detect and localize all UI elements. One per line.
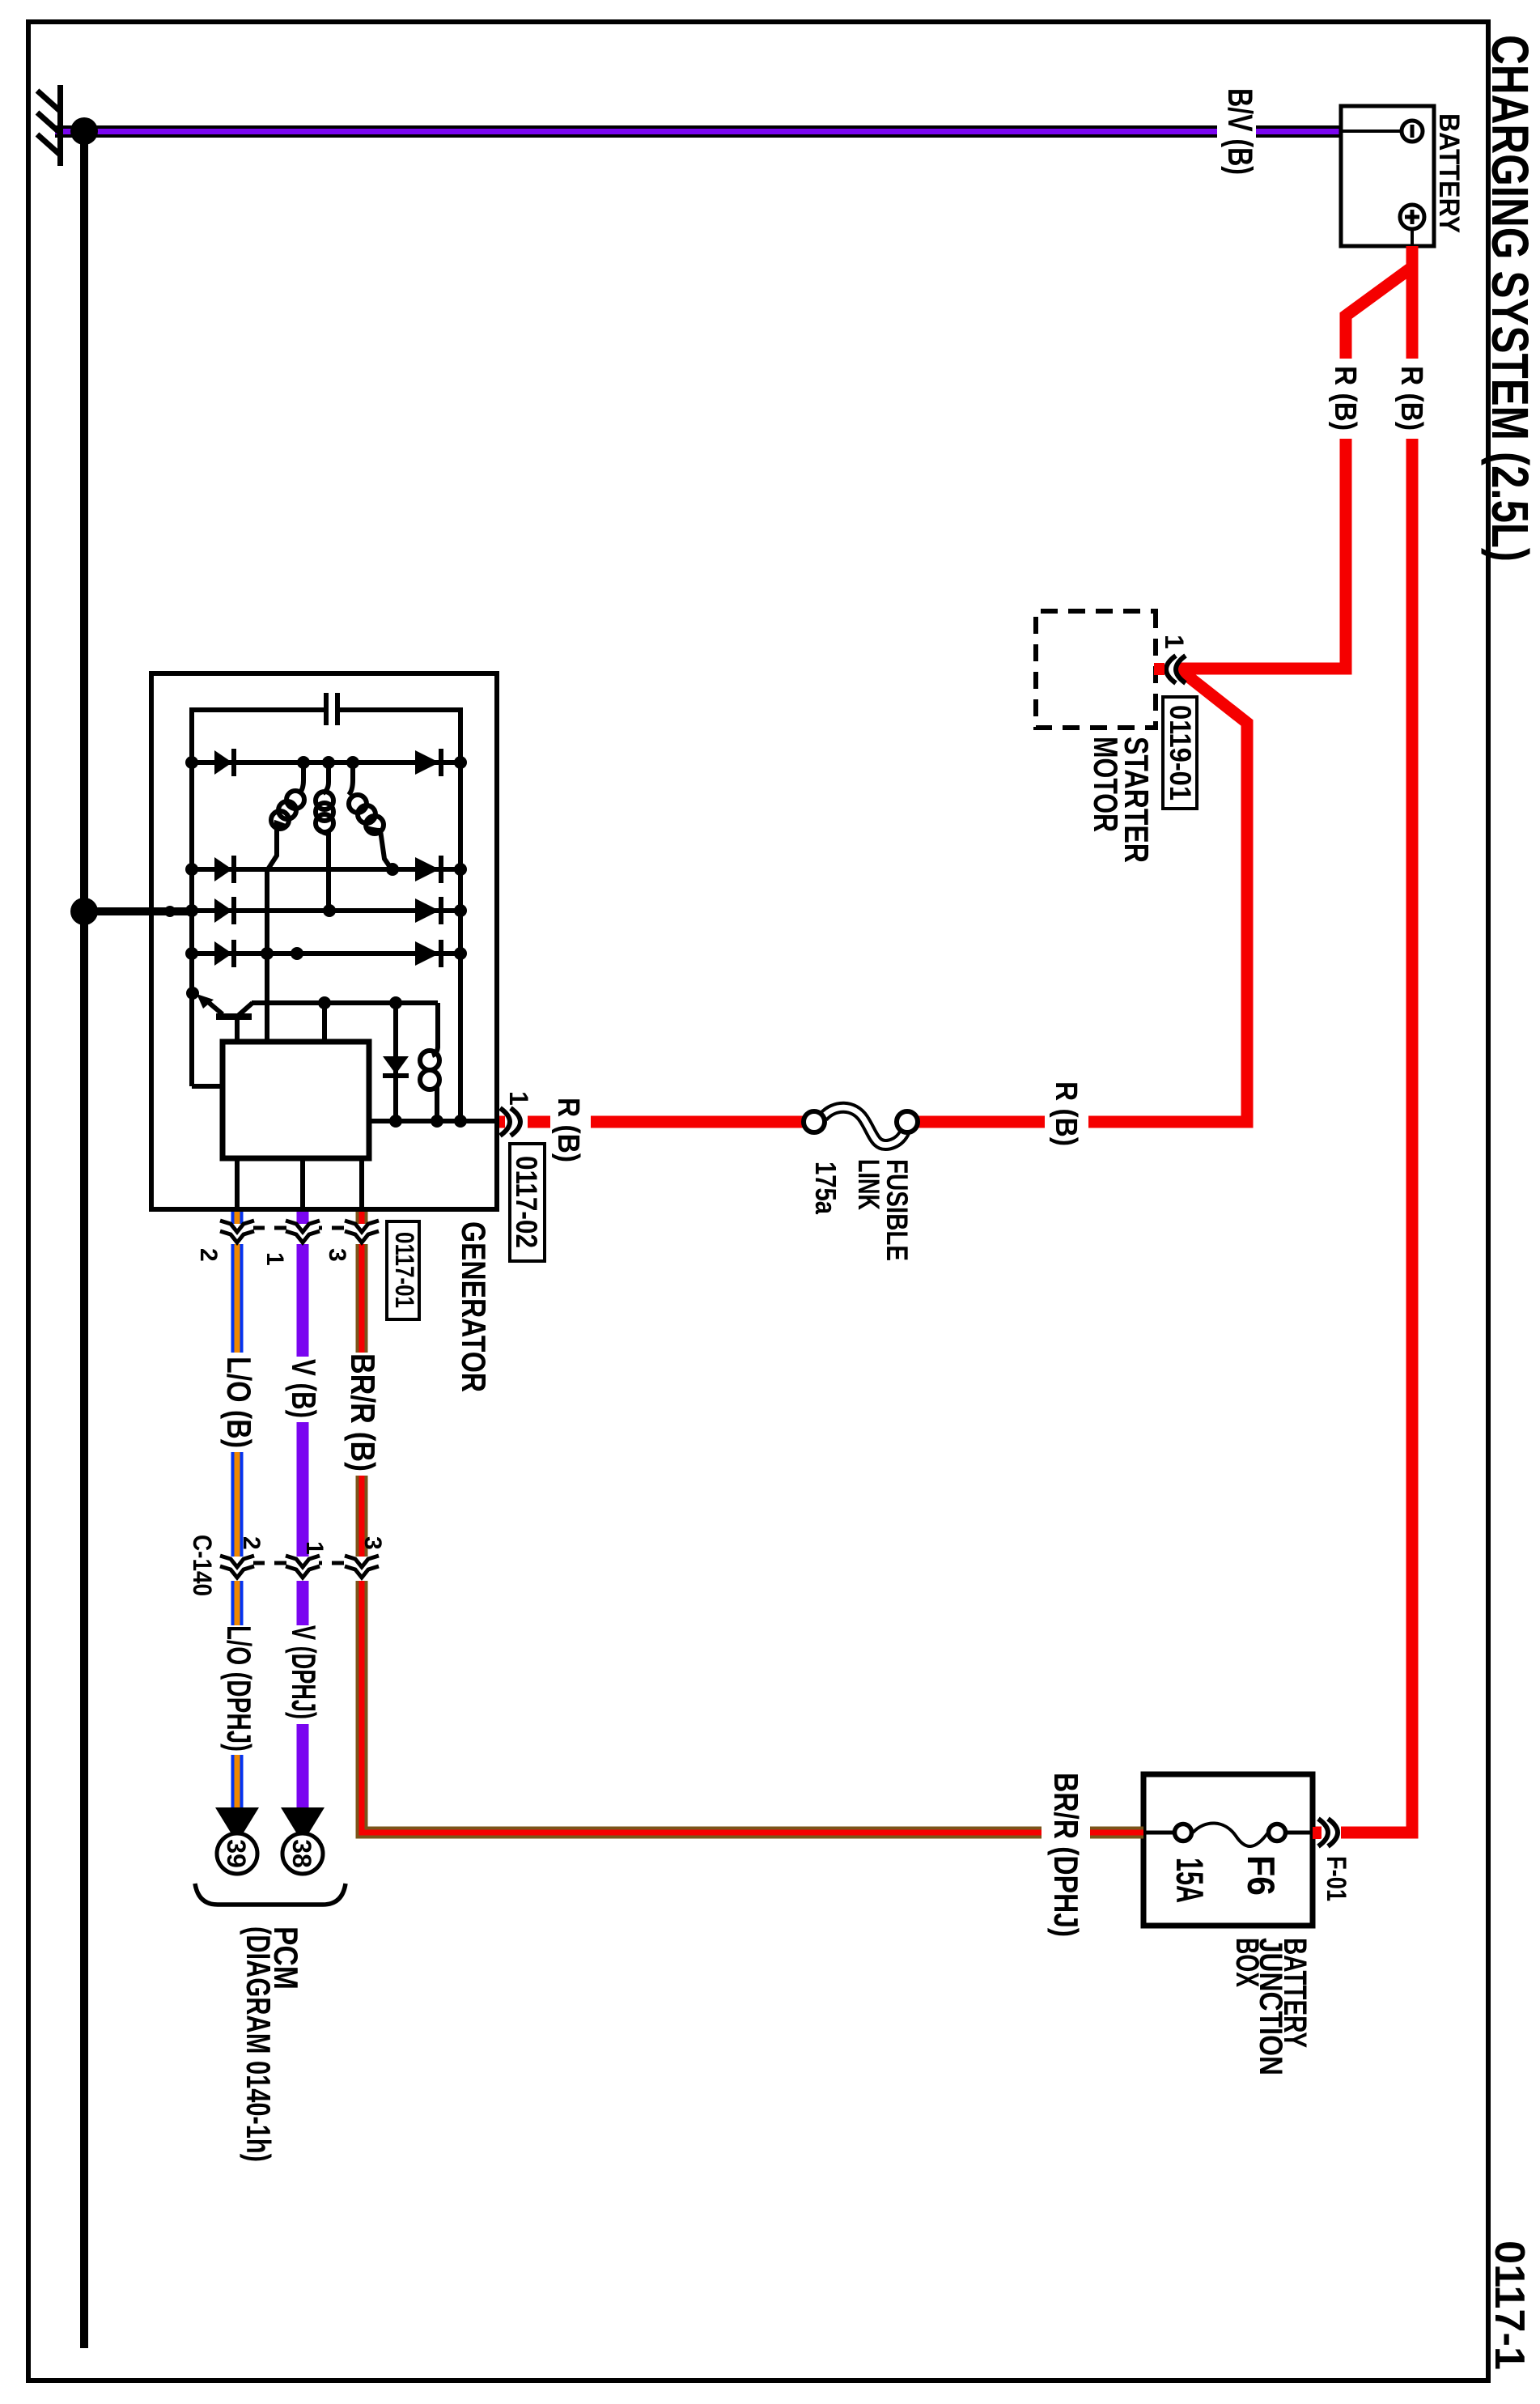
ground symbol xyxy=(37,85,63,166)
regulator box xyxy=(223,1042,369,1158)
diode phase column 2 xyxy=(192,856,460,883)
label box 0117-01 xyxy=(387,1221,419,1319)
svg-text:L/O (DPHJ): L/O (DPHJ) xyxy=(220,1625,258,1752)
svg-text:CHARGING SYSTEM (2.5L): CHARGING SYSTEM (2.5L) xyxy=(1481,35,1539,562)
wire regulator sense tap xyxy=(322,1003,327,1042)
diode phase column 1 xyxy=(192,749,460,776)
svg-text:MOTOR: MOTOR xyxy=(1087,737,1125,832)
fuse F6 15A xyxy=(1146,1823,1310,1846)
svg-text:38: 38 xyxy=(287,1839,316,1868)
transistor Q regulator output xyxy=(197,994,252,1042)
node dots phase taps xyxy=(346,756,359,769)
svg-text:175a: 175a xyxy=(809,1162,842,1215)
stator coil 2 xyxy=(316,762,333,911)
svg-text:R (B): R (B) xyxy=(1394,366,1428,431)
wire BR/R generator terminal 3 (brown w/ red core) to junction box xyxy=(362,1212,1143,1841)
svg-text:1: 1 xyxy=(504,1091,533,1106)
svg-text:3: 3 xyxy=(359,1536,386,1550)
diode phase column 4 xyxy=(192,940,460,967)
PCM pin arrow 38 xyxy=(281,1807,325,1843)
svg-text:2: 2 xyxy=(238,1536,265,1550)
svg-text:BR/R (DPHJ): BR/R (DPHJ) xyxy=(1047,1773,1085,1937)
svg-text:C-140: C-140 xyxy=(188,1535,217,1596)
PCM pin arrow 39 xyxy=(215,1807,259,1843)
generator inner rectifier frame xyxy=(192,710,495,1121)
svg-text:R (B): R (B) xyxy=(1049,1081,1083,1146)
svg-text:0117-1: 0117-1 xyxy=(1486,2240,1533,2370)
svg-text:1: 1 xyxy=(261,1252,288,1266)
svg-text:0117-02: 0117-02 xyxy=(510,1156,543,1248)
node dots bottom bus xyxy=(185,756,198,769)
svg-text:L/O (B): L/O (B) xyxy=(220,1357,258,1448)
connector 0117-02 chevron at generator output xyxy=(500,1108,528,1136)
node dots B+ line xyxy=(431,1115,443,1128)
gap for R (B) label on battery feed xyxy=(1404,359,1420,439)
node dots collector line xyxy=(389,996,402,1009)
svg-text:F-01: F-01 xyxy=(1321,1856,1351,1901)
wire B/V battery negative (black w/ violet core), vertical xyxy=(55,125,1341,138)
node small dot on ground branch xyxy=(164,906,176,917)
svg-text:15A: 15A xyxy=(1169,1858,1211,1903)
node ground junction dot xyxy=(70,117,98,145)
wire generator ground branch xyxy=(84,907,192,915)
gap for R (B) label lower xyxy=(550,1115,591,1129)
label box 0119-01 xyxy=(1163,697,1197,809)
fusible link 175a xyxy=(804,1107,918,1145)
zener diode in regulator xyxy=(383,1003,409,1121)
node generator ground junction dot xyxy=(70,898,98,925)
svg-text:2: 2 xyxy=(195,1248,222,1262)
PCM brace xyxy=(195,1884,346,1905)
svg-text:B/V (B): B/V (B) xyxy=(1220,88,1259,175)
svg-text:F6: F6 xyxy=(1240,1855,1283,1896)
wire collector line xyxy=(252,1000,438,1005)
PCM pin circle 39 xyxy=(217,1833,257,1874)
wire R starter to generator (red) xyxy=(497,669,1247,1122)
wire phase sense line to regulator xyxy=(265,869,269,1042)
wire ground bus (black) xyxy=(80,127,88,2348)
svg-text:1: 1 xyxy=(301,1541,328,1555)
starter motor dashed box xyxy=(1036,611,1156,728)
stator coil 3 xyxy=(268,762,304,869)
svg-text:BR/R (B): BR/R (B) xyxy=(344,1353,382,1472)
battery negative terminal xyxy=(1341,121,1423,142)
generator box xyxy=(151,673,497,1209)
svg-text:(DIAGRAM 0140-1h): (DIAGRAM 0140-1h) xyxy=(240,1926,278,2162)
svg-text:FUSIBLE: FUSIBLE xyxy=(880,1159,914,1261)
node dots top bus xyxy=(454,756,467,769)
svg-text:V (DPHJ): V (DPHJ) xyxy=(285,1625,323,1719)
diode phase column 3 xyxy=(192,897,460,924)
svg-text:BATTERY: BATTERY xyxy=(1433,113,1465,233)
svg-text:R (B): R (B) xyxy=(1328,366,1362,431)
svg-text:1: 1 xyxy=(1160,635,1189,649)
svg-text:V (B): V (B) xyxy=(285,1359,323,1418)
label box 0117-02 xyxy=(510,1144,545,1261)
battery positive terminal xyxy=(1400,205,1424,246)
svg-text:LINK: LINK xyxy=(852,1159,885,1210)
svg-text:39: 39 xyxy=(222,1839,251,1868)
connector C-140 chevrons xyxy=(220,1556,379,1578)
wire R battery positive feed (red) to junction box xyxy=(1313,246,1412,1833)
wire V generator terminal 1 (violet) xyxy=(297,1212,309,1808)
wire L/O generator terminal 2 (blue w/ orange core) xyxy=(231,1212,244,1808)
svg-text:0117-01: 0117-01 xyxy=(390,1232,419,1308)
stator coil 1 xyxy=(349,762,392,869)
svg-text:GENERATOR: GENERATOR xyxy=(455,1221,493,1392)
svg-text:R (B): R (B) xyxy=(551,1098,585,1162)
svg-text:0119-01: 0119-01 xyxy=(1164,705,1197,801)
PCM pin circle 38 xyxy=(282,1833,323,1874)
svg-text:3: 3 xyxy=(324,1248,350,1262)
gap for R (B) label on generator feed upper xyxy=(1045,1115,1088,1129)
capacitor C in generator xyxy=(326,693,337,725)
gap for R (B) label on starter branch xyxy=(1338,359,1354,439)
battery junction box xyxy=(1143,1774,1313,1926)
connector F-01 chevron xyxy=(1313,1819,1341,1846)
field coil rotor winding xyxy=(420,1003,439,1121)
connector 0119-01 chevron at starter xyxy=(1154,656,1186,683)
connector 0117-01 chevrons xyxy=(220,1221,379,1242)
svg-text:BOX: BOX xyxy=(1229,1938,1265,1987)
wire R branch to starter motor (red) xyxy=(1173,267,1412,669)
generator output stubs xyxy=(235,1158,240,1212)
battery BATTERY box xyxy=(1341,106,1434,246)
